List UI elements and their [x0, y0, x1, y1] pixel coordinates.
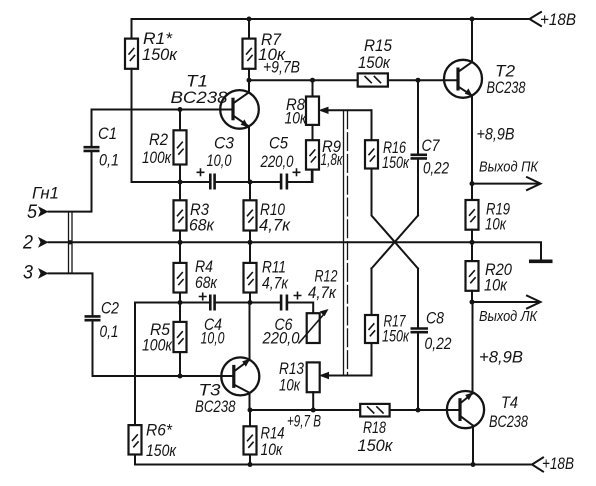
wire R3 bottom — [179, 231, 181, 243]
resistor R8 trimmer — [312, 80, 314, 96]
svg-text:1,8к: 1,8к — [321, 151, 344, 169]
transistor T1 — [220, 90, 259, 129]
capacitor C8 — [411, 329, 429, 333]
svg-text:C3: C3 — [214, 135, 235, 153]
wire C7 down — [417, 160, 419, 216]
resistor R15 — [358, 73, 388, 86]
svg-text:150к: 150к — [358, 54, 391, 72]
svg-text:BC238: BC238 — [195, 398, 236, 416]
C5 plus — [293, 168, 301, 176]
wire R1 to upper node line — [131, 69, 133, 182]
wire T1 collector — [248, 80, 250, 92]
resistor R14 — [249, 410, 251, 426]
svg-text:68к: 68к — [195, 274, 218, 292]
svg-text:10к: 10к — [285, 110, 308, 128]
svg-text:150к: 150к — [382, 154, 410, 172]
power arrow +18V top — [530, 12, 542, 26]
svg-text:R12: R12 — [315, 268, 338, 286]
svg-text:4,7к: 4,7к — [308, 284, 337, 302]
svg-text:+18В: +18В — [540, 11, 576, 29]
wire T3 collector — [249, 393, 251, 410]
wire R5 bottom — [179, 352, 181, 376]
wire cross to C8 — [417, 269, 419, 328]
svg-text:C1: C1 — [98, 125, 117, 143]
svg-text:10к: 10к — [484, 277, 508, 295]
svg-text:R6*: R6* — [146, 422, 173, 440]
wire pin3 to C2 — [49, 273, 93, 315]
resistor R2 — [179, 110, 181, 131]
transistor T2 — [444, 60, 482, 98]
mechanical link double line — [343, 110, 345, 375]
resistor R1 — [131, 19, 133, 39]
svg-text:150к: 150к — [146, 442, 177, 460]
junction dots — [247, 17, 252, 22]
svg-text:68к: 68к — [189, 217, 215, 235]
connector shield double line — [69, 212, 73, 274]
output ЛК arrow — [472, 301, 539, 303]
svg-text:10к: 10к — [485, 216, 507, 234]
wire C8 down — [417, 334, 419, 410]
svg-text:T3: T3 — [199, 382, 222, 400]
wire T1 emitter — [248, 127, 250, 183]
capacitor C6 — [281, 295, 287, 311]
crossover wires — [372, 169, 419, 269]
capacitor C1 — [84, 147, 100, 151]
wire T4 collector — [472, 426, 474, 465]
resistor R5 — [179, 303, 181, 322]
wire T2 emitter — [471, 96, 473, 184]
lower node line with C4 C6 — [135, 303, 313, 314]
wire top +18V rail — [132, 18, 530, 20]
wire T3 emitter — [249, 303, 251, 360]
R13 wiper arrow — [319, 372, 329, 379]
svg-text:Выход ЛК: Выход ЛК — [479, 308, 538, 325]
svg-text:R14: R14 — [261, 425, 285, 443]
svg-text:Выход ПК: Выход ПК — [479, 159, 539, 176]
wire T2 collector — [471, 19, 473, 62]
wire collector line bottom — [250, 409, 460, 411]
svg-text:+8,9В: +8,9В — [479, 349, 523, 367]
resistor R9 — [312, 125, 314, 140]
pin 3 arrow — [38, 268, 49, 279]
capacitor C4 — [210, 295, 214, 311]
C6 plus — [294, 292, 302, 300]
resistor R20 — [471, 242, 473, 261]
svg-text:R18: R18 — [363, 419, 387, 437]
resistor R4 — [179, 242, 181, 263]
wire R9 bottom to C5 — [312, 170, 314, 182]
svg-text:T2: T2 — [495, 63, 515, 81]
wire R6 bottom — [134, 455, 136, 465]
svg-text:220,0: 220,0 — [260, 153, 294, 171]
C3 plus — [197, 168, 205, 176]
svg-text:150к: 150к — [142, 46, 178, 64]
svg-text:3: 3 — [23, 263, 33, 284]
transistor T4 — [447, 391, 484, 428]
wire R7 bottom — [248, 69, 250, 80]
wire collector line top — [249, 79, 458, 81]
svg-text:R2: R2 — [149, 131, 168, 149]
resistor R12 variable — [312, 313, 314, 343]
svg-text:C5: C5 — [269, 135, 289, 153]
svg-text:100к: 100к — [142, 149, 172, 167]
resistor R18 — [360, 404, 389, 417]
resistor R7 — [248, 19, 250, 39]
wire pin5 to C1 — [49, 152, 92, 211]
svg-text:150к: 150к — [358, 437, 394, 455]
svg-text:0,22: 0,22 — [423, 160, 449, 178]
wire R13 bottom — [312, 392, 314, 410]
upper node line with C3 C5 — [132, 170, 312, 182]
svg-text:T4: T4 — [501, 394, 518, 412]
wire R4 bottom — [179, 293, 181, 303]
wire R14 bottom — [249, 455, 251, 465]
svg-text:Гн1: Гн1 — [32, 185, 59, 203]
C4 plus — [199, 293, 207, 301]
svg-text:10,0: 10,0 — [207, 152, 233, 170]
svg-text:C7: C7 — [422, 137, 441, 155]
svg-text:4,7к: 4,7к — [262, 275, 289, 293]
R8 wiper arrow — [322, 109, 372, 111]
transistor T3 — [221, 357, 259, 395]
resistor R3 — [179, 182, 181, 200]
capacitor C3 — [210, 174, 214, 190]
svg-text:C8: C8 — [426, 310, 445, 328]
svg-text:10к: 10к — [279, 377, 301, 395]
capacitor C7 — [417, 80, 419, 153]
svg-text:0,1: 0,1 — [99, 152, 119, 170]
wire R11 bottom — [249, 293, 251, 303]
resistor R11 — [249, 242, 251, 263]
svg-text:T1: T1 — [186, 73, 208, 91]
wire R17 to R13 wiper — [322, 343, 372, 376]
svg-text:+8,9В: +8,9В — [477, 126, 515, 144]
svg-text:BC238: BC238 — [489, 413, 529, 431]
svg-text:10,0: 10,0 — [201, 330, 226, 348]
pin 5 arrow — [38, 206, 49, 217]
resistor R10 — [249, 182, 251, 200]
svg-text:2: 2 — [22, 233, 33, 254]
svg-text:150к: 150к — [382, 328, 410, 346]
svg-text:4,7к: 4,7к — [259, 217, 291, 235]
wire C1 to base line T1 — [92, 110, 234, 146]
wire R10 bottom — [249, 231, 251, 243]
svg-text:+9,7 В: +9,7 В — [287, 413, 321, 431]
wire pin2 common line — [49, 242, 542, 259]
wire T4 emitter — [472, 302, 474, 393]
resistor R6 — [134, 303, 136, 426]
resistor R17 — [371, 269, 373, 316]
wire R19 bottom — [471, 230, 473, 243]
svg-text:R13: R13 — [279, 360, 305, 378]
output ПК arrow — [472, 183, 539, 185]
resistor R19 — [471, 184, 473, 200]
svg-text:100к: 100к — [142, 337, 173, 355]
power arrow +18V bottom — [532, 458, 543, 472]
svg-text:BC238: BC238 — [487, 79, 527, 97]
svg-text:C2: C2 — [101, 300, 119, 318]
wire C2 to base line T3 — [93, 322, 235, 376]
svg-text:R15: R15 — [364, 37, 393, 55]
resistor R16 — [371, 110, 373, 140]
capacitor C5 — [281, 174, 287, 190]
svg-text:BC238: BC238 — [171, 89, 229, 107]
resistor R13 trimmer — [307, 362, 320, 392]
svg-text:5: 5 — [27, 202, 37, 223]
svg-text:10к: 10к — [261, 441, 284, 459]
svg-text:0,1: 0,1 — [100, 323, 119, 341]
svg-text:+9,7В: +9,7В — [263, 59, 300, 77]
wire bottom +18V rail — [135, 464, 532, 466]
wire R2 bottom — [179, 165, 181, 183]
svg-text:0,22: 0,22 — [425, 335, 452, 353]
capacitor C2 — [85, 316, 101, 320]
ground — [529, 259, 553, 263]
wire R20 bottom — [471, 291, 473, 302]
pin 2 arrow — [38, 237, 49, 248]
svg-text:+18В: +18В — [542, 455, 574, 473]
svg-text:220,0: 220,0 — [262, 330, 301, 348]
